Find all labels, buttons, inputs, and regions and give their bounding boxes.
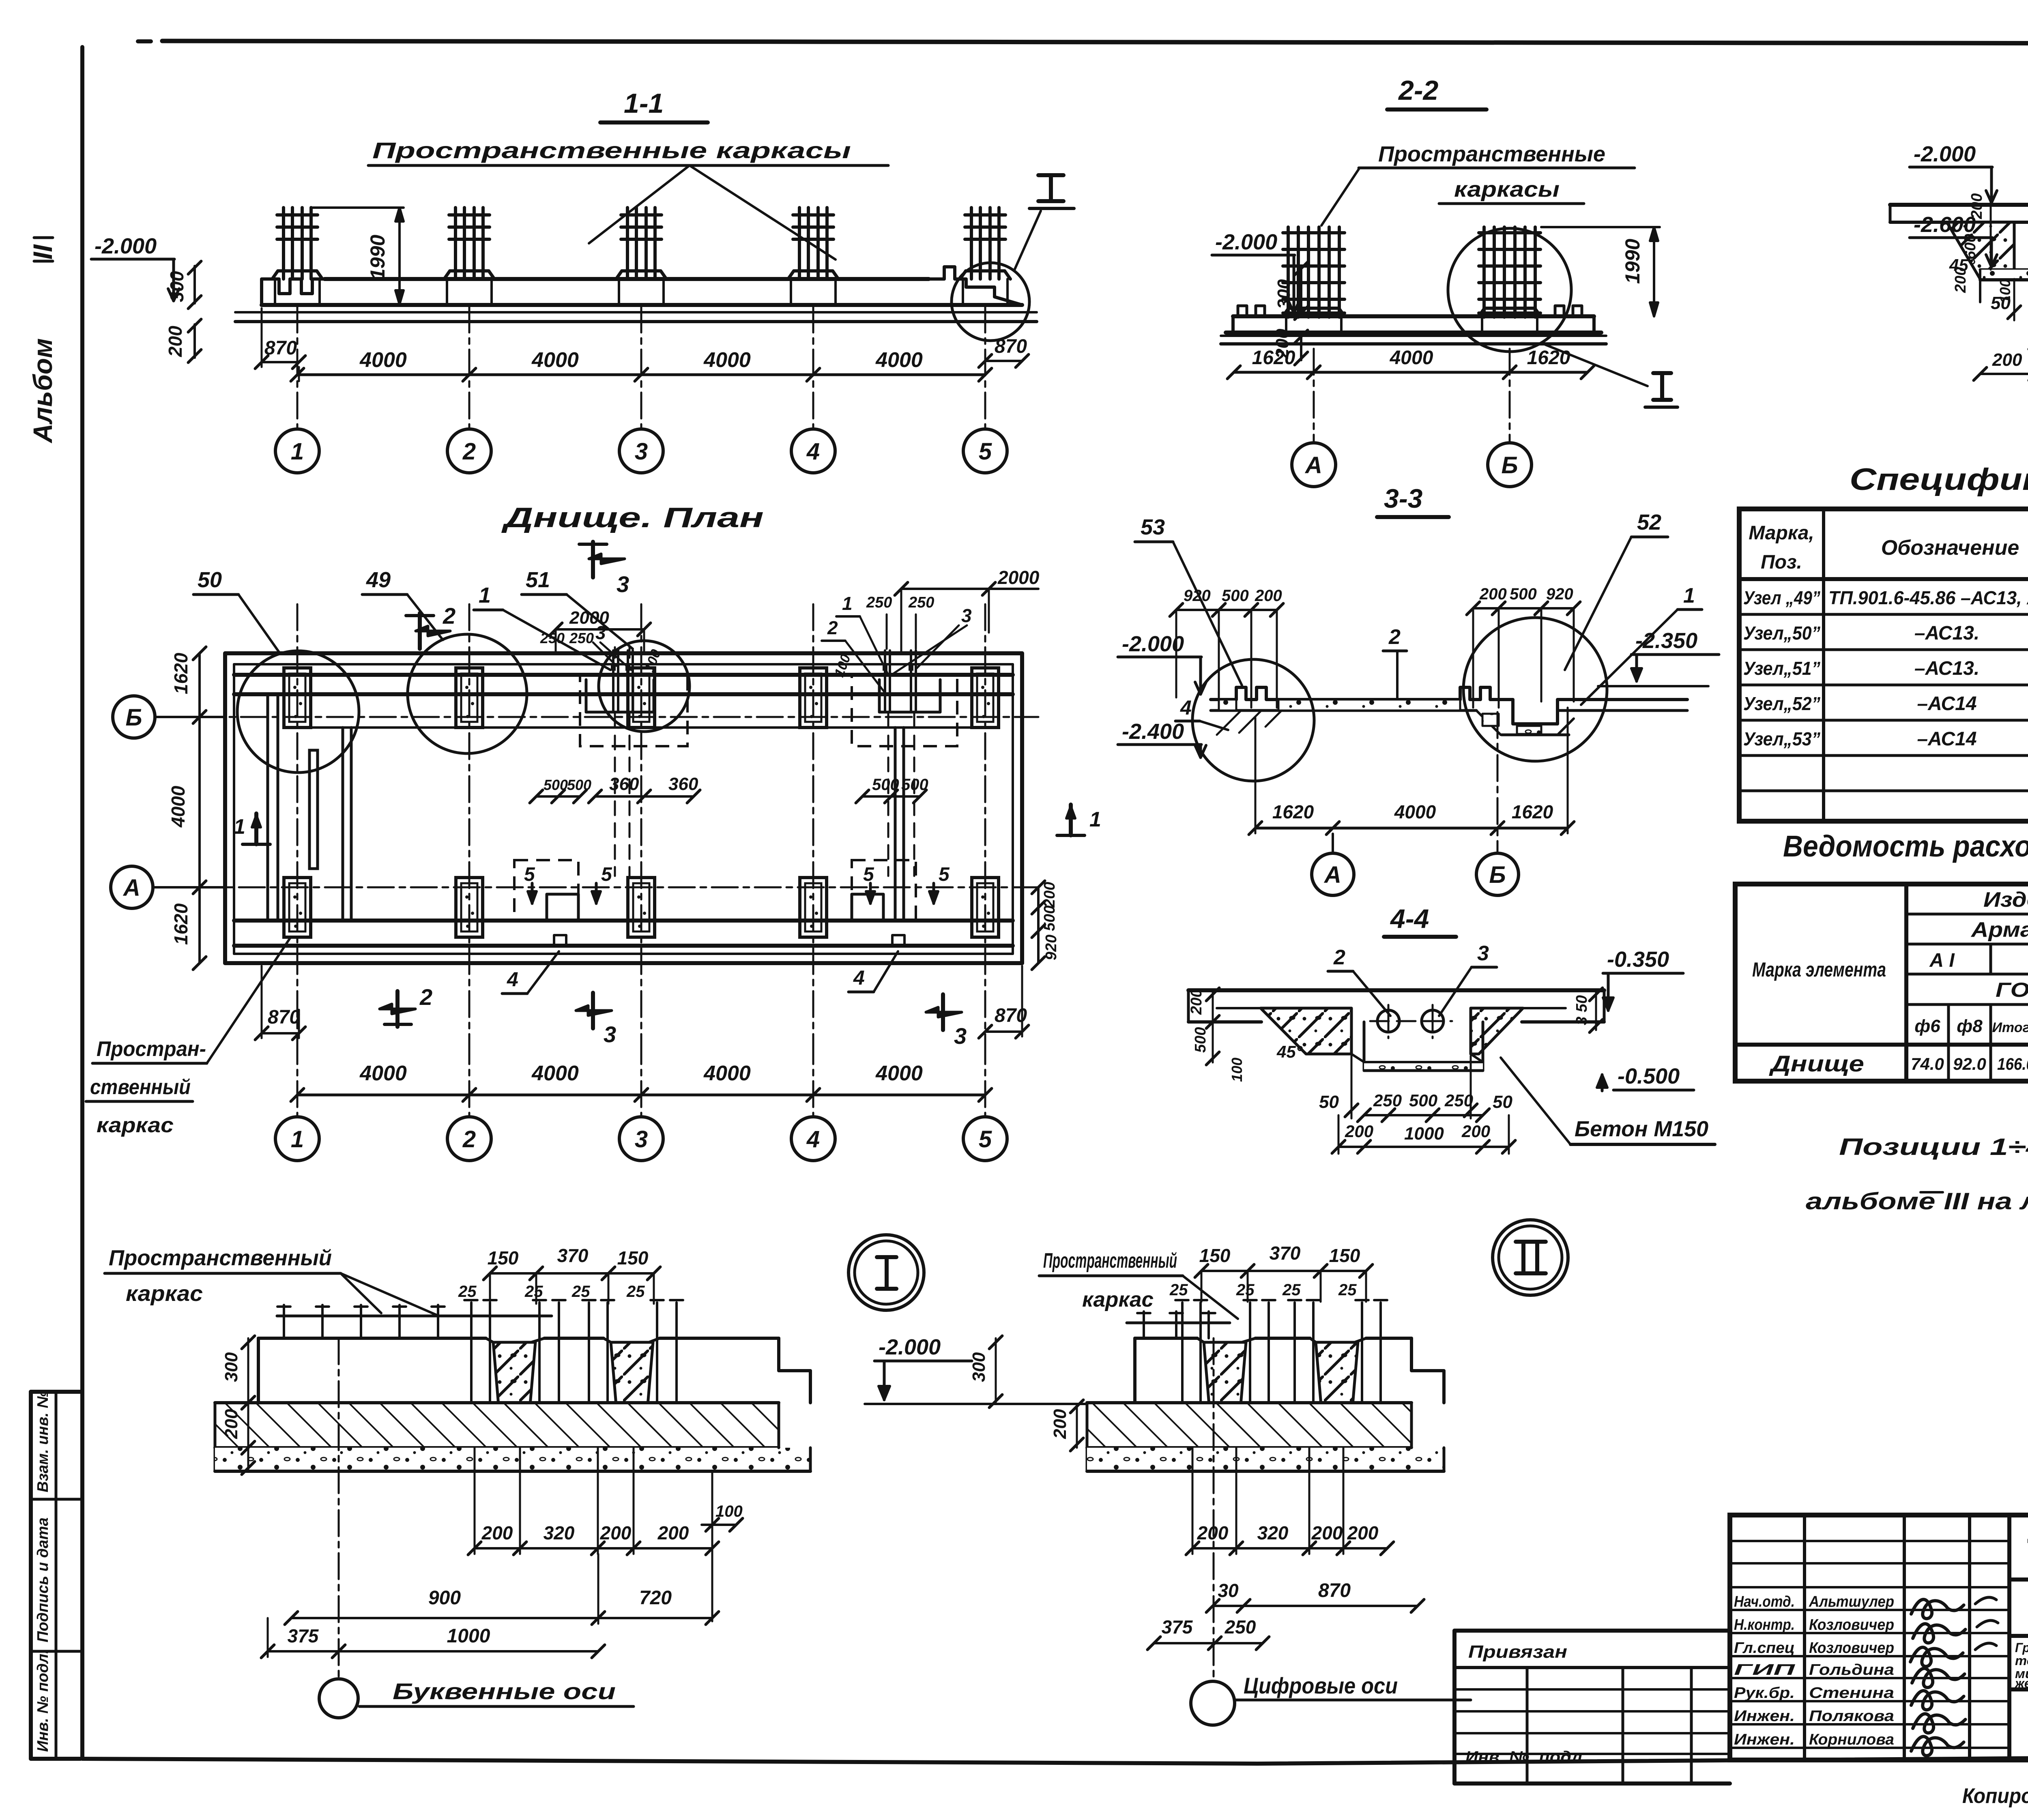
svg-text:4000: 4000 <box>703 1062 751 1085</box>
svg-text:250: 250 <box>1444 1091 1473 1110</box>
slab 5-5 top <box>1890 203 2028 207</box>
svg-text:Козловичер: Козловичер <box>1809 1616 1894 1633</box>
slab hatched band detail II <box>1087 1403 1411 1448</box>
svg-text:300: 300 <box>969 1352 989 1382</box>
svg-text:1620: 1620 <box>1512 801 1553 822</box>
svg-text:Узел„52”: Узел„52” <box>1743 693 1820 714</box>
svg-text:200: 200 <box>1041 882 1058 908</box>
slab joint pads 1-1 <box>272 271 322 279</box>
svg-text:1: 1 <box>1089 808 1101 831</box>
plan bottom pocket cluster right <box>852 860 916 921</box>
svg-text:-2.000: -2.000 <box>1215 230 1277 254</box>
rebar cages 2-2 <box>1287 227 1290 317</box>
svg-text:250: 250 <box>1373 1091 1402 1110</box>
dims 300/200 2-2 <box>1300 267 1302 314</box>
svg-text:25: 25 <box>626 1283 645 1301</box>
svg-text:II: II <box>28 244 58 260</box>
svg-text:1000: 1000 <box>447 1625 490 1647</box>
svg-text:4: 4 <box>853 966 865 989</box>
svg-text:Узел „49”: Узел „49” <box>1743 587 1820 608</box>
svg-text:92.0: 92.0 <box>1953 1054 1986 1073</box>
svg-text:5: 5 <box>939 864 950 885</box>
svg-text:25: 25 <box>458 1283 477 1301</box>
svg-text:Инв. №. подл.: Инв. №. подл. <box>1465 1748 1587 1766</box>
dim 200 left 1-1 <box>193 324 196 358</box>
svg-text:1: 1 <box>234 815 245 839</box>
detail marker II big circle <box>1493 1220 1568 1295</box>
svg-text:1: 1 <box>291 438 304 465</box>
svg-text:-0.350: -0.350 <box>1607 947 1669 972</box>
svg-text:25: 25 <box>1236 1281 1255 1299</box>
svg-text:3 50: 3 50 <box>1573 995 1590 1025</box>
left margin table <box>29 1392 33 1759</box>
teeth detail II <box>1197 1338 1255 1342</box>
svg-text:Б: Б <box>1501 452 1518 479</box>
svg-text:4: 4 <box>507 968 518 991</box>
plan outer top edges <box>225 651 1022 655</box>
svg-text:4000: 4000 <box>875 1062 923 1085</box>
plan left dim column <box>198 653 201 963</box>
detail circle I on 2-2 <box>1448 228 1571 352</box>
leader to cage 2-2 <box>1321 168 1360 225</box>
plan bottom pocket cluster left <box>514 860 578 921</box>
svg-text:Пространственные: Пространственные <box>1378 142 1605 166</box>
svg-text:Узел„53”: Узел„53” <box>1743 728 1820 749</box>
svg-text:Пространственный: Пространственный <box>1043 1249 1177 1273</box>
svg-text:ГОСТ 5781- 82: ГОСТ 5781- 82 <box>1996 979 2028 1001</box>
plan section mark 2 top <box>418 613 422 649</box>
sheet frame <box>138 39 151 43</box>
svg-text:500: 500 <box>1409 1091 1437 1110</box>
svg-text:3: 3 <box>617 571 629 597</box>
svg-text:Козловичер: Козловичер <box>1809 1640 1894 1657</box>
base slab joint hooks bottom <box>554 935 566 946</box>
svg-text:1990: 1990 <box>1621 239 1644 284</box>
svg-text:4000: 4000 <box>1390 347 1433 369</box>
svg-text:ф8: ф8 <box>1957 1016 1983 1036</box>
svg-text:Инжен.: Инжен. <box>1734 1731 1795 1748</box>
svg-text:1: 1 <box>479 583 491 607</box>
slab section 1-1 <box>324 277 929 281</box>
privyazan block <box>1454 1629 1730 1633</box>
left concrete wedge 5-5 <box>1947 222 2014 279</box>
svg-text:Простран-: Простран- <box>97 1037 206 1061</box>
slab hatched band detail I <box>215 1403 779 1448</box>
plan rebar rectangles bottom row <box>284 878 311 937</box>
svg-text:370: 370 <box>1270 1243 1301 1264</box>
svg-text:5: 5 <box>524 864 535 885</box>
svg-text:Гольдина: Гольдина <box>1809 1661 1894 1678</box>
concrete block detail II <box>1135 1337 1197 1340</box>
main dim line 4000x4 section 1-1 <box>297 373 985 376</box>
svg-text:-0.500: -0.500 <box>1618 1064 1680 1088</box>
svg-text:50: 50 <box>1991 293 2011 313</box>
svg-text:200: 200 <box>600 1522 632 1543</box>
svg-text:-2.000: -2.000 <box>95 234 157 258</box>
svg-text:Инв. № подл.: Инв. № подл. <box>34 1649 52 1752</box>
svg-text:4000: 4000 <box>531 1062 579 1085</box>
trench bottom slab 5-5 <box>1980 268 2028 271</box>
svg-text:1000: 1000 <box>1404 1124 1444 1144</box>
svg-text:1620: 1620 <box>170 652 191 694</box>
svg-text:3: 3 <box>595 622 606 643</box>
svg-text:Поз.: Поз. <box>1761 552 1802 573</box>
plan right rotated dims 200 500 920 <box>1037 887 1040 963</box>
right wedge 4-4 <box>1471 1008 1523 1054</box>
svg-text:2: 2 <box>1333 946 1345 969</box>
svg-text:Пространственные каркасы: Пространственные каркасы <box>372 137 851 163</box>
svg-text:1620: 1620 <box>170 903 191 945</box>
concrete block detail I <box>258 1337 486 1340</box>
svg-text:Буквенные оси: Буквенные оси <box>393 1678 616 1704</box>
svg-text:Нач.отд.: Нач.отд. <box>1734 1593 1795 1610</box>
svg-text:1: 1 <box>291 1126 304 1153</box>
left dims detail I <box>247 1338 249 1471</box>
svg-text:ф6: ф6 <box>1914 1016 1940 1036</box>
svg-text:А I: А I <box>1929 950 1955 971</box>
svg-text:Градирня четырехсекционная с в: Градирня четырехсекционная с вентиля- <box>2015 1640 2028 1655</box>
svg-text:250: 250 <box>540 630 565 646</box>
svg-text:-2.000: -2.000 <box>1914 142 1976 166</box>
svg-text:Обозначение: Обозначение <box>1881 536 2019 560</box>
svg-text:3-3: 3-3 <box>1384 483 1422 513</box>
svg-text:200: 200 <box>1345 1122 1373 1141</box>
dim 300 left 1-1 <box>193 266 196 303</box>
svg-text:1: 1 <box>842 593 853 614</box>
svg-text:4000: 4000 <box>875 348 923 372</box>
svg-text:1620: 1620 <box>1252 347 1295 369</box>
svg-text:5: 5 <box>979 438 992 465</box>
plan grid circles A B <box>156 716 225 718</box>
svg-text:200: 200 <box>1311 1522 1343 1543</box>
svg-text:Привязан: Привязан <box>1468 1642 1567 1662</box>
svg-text:ТП.901.6-45.86 –АС13, Ал III: ТП.901.6-45.86 –АС13, Ал III <box>1828 587 2028 608</box>
svg-text:Изделия арматурные: Изделия арматурные <box>1983 888 2028 912</box>
svg-text:–АС13.: –АС13. <box>1914 658 1979 679</box>
dim line 1620/4000/1620 2-2 <box>1234 371 1588 374</box>
plan bottom grid circles <box>296 1038 299 1117</box>
slab section 2-2 <box>1233 314 1594 318</box>
svg-text:500: 500 <box>1041 906 1058 931</box>
plan bottom section marks 2,3,3,4 <box>395 991 400 1027</box>
detail circle II mark on 1-1 <box>952 263 1029 341</box>
detail circles 3-3 <box>1192 659 1314 781</box>
svg-text:ГИП: ГИП <box>1734 1661 1795 1678</box>
signatures squiggles <box>1911 1599 1964 1618</box>
signature table <box>1803 1515 1806 1760</box>
svg-text:3: 3 <box>604 1022 616 1047</box>
svg-text:50: 50 <box>1493 1092 1512 1112</box>
svg-text:200: 200 <box>1479 585 1507 603</box>
slab 4-4 <box>1188 988 1604 992</box>
plan bottom wall band <box>234 919 1013 923</box>
svg-text:-2.000: -2.000 <box>1122 632 1184 656</box>
rebar cages 1-1 <box>282 208 285 279</box>
svg-text:320: 320 <box>1257 1522 1289 1543</box>
left wedge 4-4 <box>1261 1008 1351 1054</box>
svg-text:920: 920 <box>1043 935 1060 960</box>
svg-text:45°: 45° <box>1276 1042 1303 1061</box>
svg-text:51: 51 <box>526 568 550 592</box>
svg-text:1: 1 <box>1683 584 1695 607</box>
svg-text:Днище. План: Днище. План <box>501 502 764 533</box>
svg-text:300: 300 <box>1274 279 1294 309</box>
svg-text:45°: 45° <box>1949 255 1976 275</box>
svg-text:Днище: Днище <box>1769 1051 1864 1076</box>
plan rebar rectangles top row <box>284 668 311 728</box>
svg-text:4000: 4000 <box>1394 801 1436 822</box>
svg-text:200: 200 <box>221 1409 241 1439</box>
svg-text:каркас: каркас <box>126 1281 203 1306</box>
svg-text:150: 150 <box>488 1247 519 1268</box>
svg-text:25: 25 <box>571 1283 590 1301</box>
svg-text:375: 375 <box>288 1625 319 1646</box>
svg-text:5: 5 <box>979 1126 992 1153</box>
axis circle detail I <box>338 1338 340 1679</box>
svg-text:4: 4 <box>806 1126 820 1153</box>
svg-text:Альтшулер: Альтшулер <box>1809 1593 1894 1610</box>
svg-text:Узел„50”: Узел„50” <box>1743 622 1820 644</box>
svg-text:2: 2 <box>1388 625 1401 649</box>
svg-text:49: 49 <box>366 568 391 592</box>
svg-text:2000: 2000 <box>997 567 1040 588</box>
svg-text:50: 50 <box>1319 1092 1339 1112</box>
svg-text:Пространственный: Пространственный <box>109 1246 332 1270</box>
svg-text:4000: 4000 <box>359 348 407 372</box>
grid circles 1..5 section 1-1 <box>296 307 299 428</box>
svg-text:200: 200 <box>165 326 186 357</box>
svg-text:25: 25 <box>1282 1281 1301 1299</box>
plan outer bottom edge <box>225 961 1022 965</box>
svg-text:200: 200 <box>1461 1122 1490 1141</box>
svg-text:920: 920 <box>1184 587 1211 605</box>
svg-text:-2.600: -2.600 <box>1914 212 1976 237</box>
svg-text:Взам. инв. №: Взам. инв. № <box>34 1391 52 1492</box>
svg-text:25: 25 <box>1338 1281 1357 1299</box>
plan section marks 1 left/right <box>243 843 270 846</box>
svg-text:166.0: 166.0 <box>1997 1054 2028 1073</box>
svg-text:25: 25 <box>1169 1281 1188 1299</box>
svg-text:Спецификация к схеме днищ: Спецификация к схеме днища <box>1850 462 2028 497</box>
svg-text:200: 200 <box>1255 587 1282 605</box>
lean concrete base lines 1-1 <box>235 311 1037 313</box>
slab hatch bits 3-3 <box>1219 700 1236 710</box>
svg-text:Альбом: Альбом <box>28 338 58 444</box>
svg-text:900: 900 <box>428 1587 461 1609</box>
slab profile 3-3 <box>1211 698 1236 701</box>
svg-text:Полякова: Полякова <box>1809 1708 1894 1725</box>
svg-text:А: А <box>1323 862 1341 888</box>
svg-text:Узел„51”: Узел„51” <box>1743 658 1820 679</box>
title block big row <box>2007 1515 2011 1760</box>
axis circle detail II <box>1213 1338 1215 1681</box>
svg-text:–АС14: –АС14 <box>1917 693 1976 715</box>
svg-text:5: 5 <box>863 864 874 885</box>
svg-text:150: 150 <box>1329 1245 1360 1266</box>
plan grid dashdot lines <box>155 716 1038 718</box>
steel table frame <box>1735 884 2028 1081</box>
plan section mark 3 top <box>591 542 595 577</box>
svg-text:25: 25 <box>524 1283 543 1301</box>
vertical bars through teeth detail I <box>470 1303 473 1448</box>
svg-text:А: А <box>122 875 140 901</box>
svg-text:альбоме III на листе АС-: альбоме III на листе АС-14. <box>1806 1188 2028 1215</box>
svg-text:–АС14: –АС14 <box>1917 728 1976 750</box>
dim 1990 2-2 <box>1541 226 1660 228</box>
spec table frame <box>1739 509 2028 821</box>
svg-text:-2.400: -2.400 <box>1122 719 1184 744</box>
svg-text:Б: Б <box>125 704 142 731</box>
svg-text:Корнилова: Корнилова <box>1809 1731 1894 1748</box>
svg-text:100: 100 <box>1229 1058 1245 1082</box>
svg-text:2: 2 <box>827 617 838 638</box>
svg-text:200: 200 <box>1347 1522 1379 1543</box>
svg-text:920: 920 <box>1546 585 1573 603</box>
svg-text:4000: 4000 <box>531 348 579 372</box>
plan left vertical bar <box>309 750 318 869</box>
leader lines to cages 1-1 <box>589 165 690 243</box>
svg-text:300: 300 <box>221 1352 241 1382</box>
svg-text:Стенина: Стенина <box>1809 1685 1894 1702</box>
svg-text:-2.000: -2.000 <box>879 1335 941 1359</box>
svg-text:250: 250 <box>1225 1616 1256 1638</box>
svg-text:5: 5 <box>601 864 612 885</box>
plan dashed verticals from pockets <box>614 714 616 876</box>
plan side edges <box>223 653 227 963</box>
svg-text:железобетонных элементов.: железобетонных элементов. <box>2014 1676 2028 1691</box>
svg-text:250: 250 <box>569 630 594 646</box>
svg-text:200: 200 <box>1188 989 1205 1015</box>
svg-text:150: 150 <box>617 1247 649 1268</box>
svg-text:250: 250 <box>908 594 934 611</box>
svg-text:3: 3 <box>954 1023 967 1049</box>
plan detail circles 50 49 51 <box>237 651 359 773</box>
svg-text:52: 52 <box>1637 510 1661 534</box>
svg-text:870: 870 <box>268 1007 300 1028</box>
svg-text:1-1: 1-1 <box>624 88 664 119</box>
svg-text:1620: 1620 <box>1527 347 1570 369</box>
plan inner wall verticals <box>266 694 269 921</box>
teeth detail I <box>486 1338 544 1342</box>
svg-text:Марка,: Марка, <box>1749 522 1814 544</box>
svg-text:4000: 4000 <box>703 348 751 372</box>
grid circles A B 2-2 <box>1313 349 1315 442</box>
svg-text:500: 500 <box>1192 1027 1209 1053</box>
svg-text:870: 870 <box>1318 1580 1351 1601</box>
svg-text:200: 200 <box>1992 350 2022 370</box>
left dims detail II <box>995 1338 997 1404</box>
svg-text:375: 375 <box>1162 1616 1193 1638</box>
svg-text:Арматура класса: Арматура класса <box>1970 918 2028 942</box>
svg-text:370: 370 <box>557 1245 589 1266</box>
svg-text:50: 50 <box>198 568 222 592</box>
svg-text:360: 360 <box>668 774 698 794</box>
svg-text:ственный: ственный <box>90 1075 191 1099</box>
svg-text:каркас: каркас <box>1082 1288 1154 1311</box>
pipes 4-4 <box>1377 1010 1399 1032</box>
svg-text:200: 200 <box>657 1522 689 1543</box>
svg-text:–АС13.: –АС13. <box>1914 622 1979 644</box>
svg-text:74.0: 74.0 <box>1911 1054 1944 1073</box>
svg-text:720: 720 <box>639 1587 672 1609</box>
svg-text:30: 30 <box>1218 1580 1239 1601</box>
svg-text:500: 500 <box>1222 587 1249 605</box>
svg-text:2: 2 <box>443 603 455 629</box>
svg-text:каркас: каркас <box>97 1114 174 1137</box>
svg-text:320: 320 <box>544 1522 575 1543</box>
svg-text:53: 53 <box>1141 515 1165 539</box>
svg-text:Подпись и дата: Подпись и дата <box>34 1517 52 1642</box>
svg-text:Марка элемента: Марка элемента <box>1752 958 1886 981</box>
svg-text:2: 2 <box>419 984 432 1010</box>
svg-text:4: 4 <box>1180 696 1192 719</box>
grid circles A B 3-3 <box>1332 834 1334 852</box>
svg-text:150: 150 <box>1199 1245 1231 1266</box>
svg-text:4000: 4000 <box>359 1062 407 1085</box>
dotted base detail II <box>1087 1448 1444 1471</box>
svg-text:3: 3 <box>635 1126 648 1153</box>
svg-text:каркасы: каркасы <box>1454 177 1560 202</box>
dim 1990 section 1-1 <box>312 206 404 209</box>
svg-text:4-4: 4-4 <box>1390 904 1429 934</box>
svg-text:3: 3 <box>1477 942 1489 965</box>
svg-text:4: 4 <box>806 438 820 465</box>
svg-text:Н.контр.: Н.контр. <box>1734 1616 1795 1633</box>
title block outer <box>1730 1515 2028 1760</box>
svg-text:Ведомость расхода стали на э: Ведомость расхода стали на элемент, кг <box>1783 829 2028 863</box>
svg-text:торами 3ВГ25 капельная с секци: торами 3ВГ25 капельная с секция- <box>2015 1653 2028 1668</box>
lean base 2-2 <box>1221 335 1606 337</box>
detail marker I big circle <box>849 1235 924 1310</box>
plan top wall band <box>234 673 1013 677</box>
svg-text:200: 200 <box>1050 1409 1070 1439</box>
svg-text:200: 200 <box>481 1522 513 1543</box>
svg-text:4000: 4000 <box>168 786 189 828</box>
rebar tops detail I <box>277 1315 552 1318</box>
svg-text:Гл.спец: Гл.спец <box>1734 1640 1795 1657</box>
svg-text:2: 2 <box>462 1126 476 1153</box>
svg-text:500: 500 <box>1510 585 1537 603</box>
svg-text:-2.350: -2.350 <box>1635 629 1697 653</box>
svg-text:250: 250 <box>866 594 892 611</box>
svg-text:3: 3 <box>635 438 648 465</box>
svg-text:300: 300 <box>166 271 187 302</box>
svg-text:Позиции 1÷4 см. спецификаци: Позиции 1÷4 см. спецификацию в <box>1839 1134 2028 1160</box>
svg-text:Копировал: Копировал <box>1962 1784 2028 1808</box>
svg-text:1990: 1990 <box>366 235 389 280</box>
svg-text:Рук.бр.: Рук.бр. <box>1734 1685 1795 1702</box>
svg-text:2-2: 2-2 <box>1398 75 1438 106</box>
svg-text:Итого: Итого <box>1992 1020 2028 1035</box>
svg-text:2: 2 <box>462 438 476 465</box>
svg-text:А: А <box>1304 452 1322 479</box>
svg-text:Бетон М150: Бетон М150 <box>1575 1117 1708 1141</box>
dotted base detail I <box>215 1448 810 1471</box>
svg-text:1620: 1620 <box>1272 801 1314 822</box>
svg-text:Инжен.: Инжен. <box>1734 1708 1795 1725</box>
svg-text:500: 500 <box>567 777 591 793</box>
svg-text:200: 200 <box>1968 193 1985 219</box>
svg-text:3: 3 <box>961 605 972 626</box>
svg-text:Цифровые оси: Цифровые оси <box>1244 1673 1398 1698</box>
bars through teeth detail II <box>1181 1303 1184 1448</box>
rebar tops detail II <box>1127 1322 1230 1324</box>
trench 4-4 <box>1363 1022 1366 1071</box>
svg-text:Б: Б <box>1489 862 1506 888</box>
svg-text:360: 360 <box>609 774 639 794</box>
